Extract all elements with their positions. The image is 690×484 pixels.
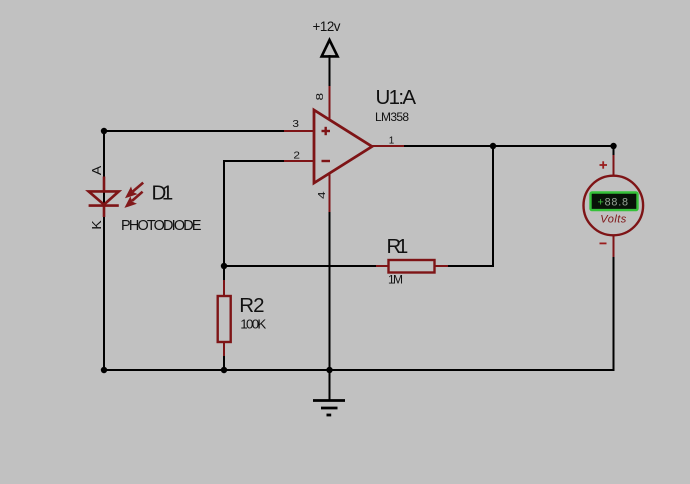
svg-text:2: 2 [293,150,300,162]
wire output corner vertical [492,146,494,267]
voltmeter plus terminal stub [613,155,615,176]
svg-text:8: 8 [314,93,326,101]
ground [313,401,345,416]
pin stub 2 [284,160,314,162]
op-amp plus input symbol [322,127,331,135]
svg-text:3: 3 [292,118,299,130]
wire left vertical [103,131,105,371]
svg-text:LM358: LM358 [375,110,409,124]
wire meter top [613,146,615,158]
wire pin3 horizontal [104,130,286,132]
wire R2 bottom black [223,355,225,371]
photodiode D1 [89,177,119,218]
voltmeter body [584,176,644,236]
wire output horizontal [404,145,614,147]
wire vcc vertical [329,55,331,88]
wire bottom horizontal [104,369,614,371]
resistor R1 [376,260,448,273]
diode triangle [89,191,119,204]
pin stub 8 vcc [329,86,331,120]
svg-text:+88.8: +88.8 [598,197,629,209]
op-amp U1 triangle [314,110,372,183]
cathode red stub [103,206,106,217]
junction dot output T [490,143,496,149]
svg-text:D1: D1 [152,182,174,205]
junction dot R2 top [221,263,227,269]
junction dot ground [326,367,332,373]
svg-text:4: 4 [316,191,328,199]
voltmeter minus label [600,242,607,244]
svg-text:1M: 1M [388,273,403,287]
wire R1 right to corner [448,265,494,267]
voltmeter minus terminal stub [613,235,615,257]
svg-text:100K: 100K [240,317,266,332]
wire meter bottom vertical [613,256,615,371]
junction dot meter top [610,143,616,149]
svg-text:+12v: +12v [313,19,341,34]
anode red stub [103,177,106,193]
wire pin2 vertical [223,160,225,281]
op-amp minus input symbol [322,160,331,162]
svg-text:1: 1 [389,134,395,146]
voltmeter LCD [591,193,638,211]
junction dot R2 bottom [221,367,227,373]
svg-text:R1: R1 [387,236,409,258]
photodiode light arrow 1 [126,183,143,198]
svg-text:K: K [90,220,104,229]
power symbol +12v arrow [322,40,338,56]
svg-text:R2: R2 [239,294,264,317]
cathode bar [89,204,119,207]
junction dot A [101,128,107,134]
svg-text:Volts: Volts [600,214,627,226]
pin stub 3 [284,130,314,132]
voltmeter plus label [600,161,608,168]
wire feedback horizontal to R1 [224,265,376,267]
pin stub 1 output [371,145,404,147]
junction dot bottom left [101,367,107,373]
wire pin2 horizontal [224,160,286,162]
photodiode light arrow 2 [126,192,143,207]
svg-text:U1:A: U1:A [376,86,417,109]
svg-text:PHOTODIODE: PHOTODIODE [121,218,202,234]
wire pin4 to ground [329,210,331,400]
resistor R2 [218,280,231,356]
svg-text:A: A [90,166,104,175]
pin stub 4 [329,173,331,212]
